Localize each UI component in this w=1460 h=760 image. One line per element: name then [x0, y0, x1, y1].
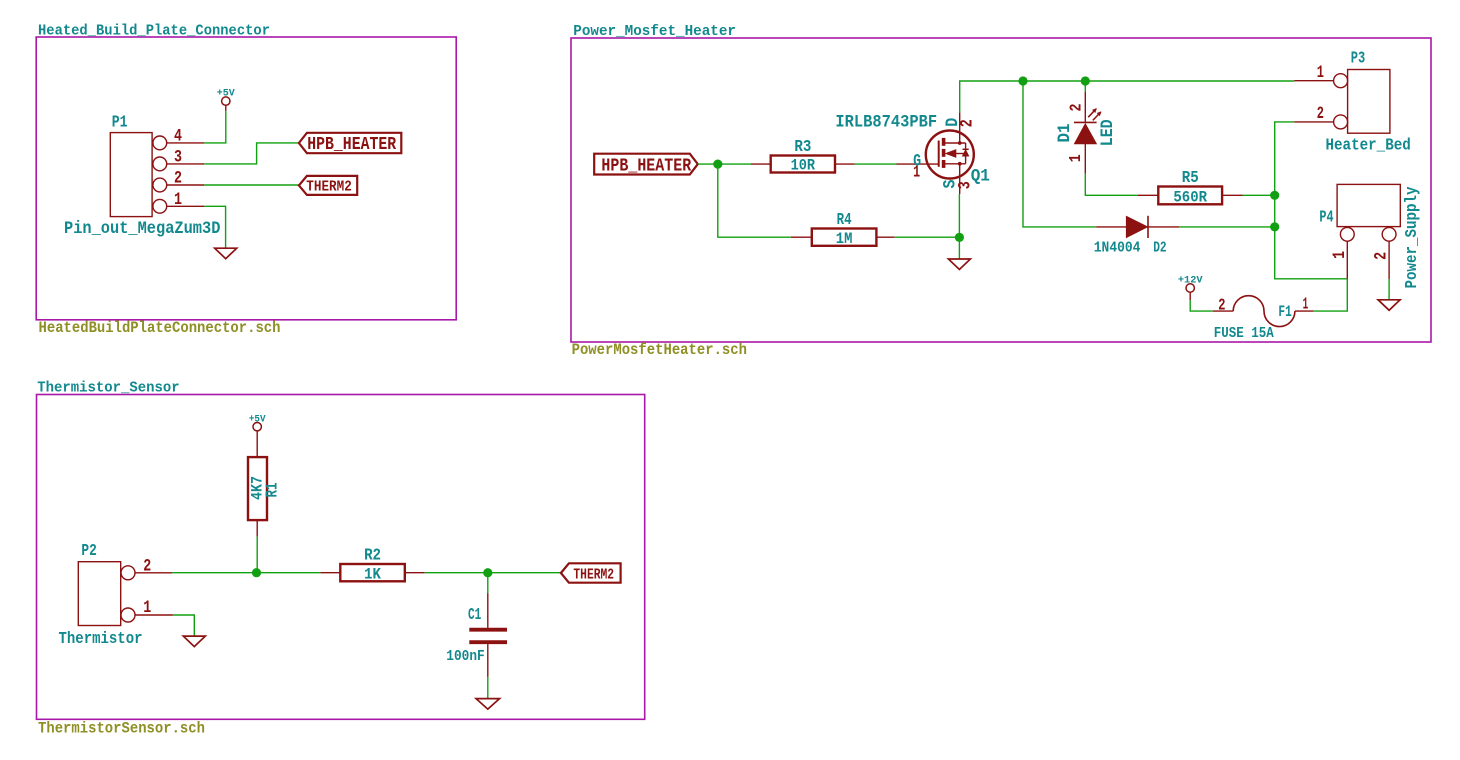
svg-text:Power_Mosfet_Heater: Power_Mosfet_Heater [573, 24, 736, 40]
svg-text:1: 1 [174, 189, 182, 209]
svg-text:Thermistor_Sensor: Thermistor_Sensor [37, 380, 180, 396]
svg-text:IRLB8743PBF: IRLB8743PBF [835, 113, 937, 133]
svg-text:1M: 1M [836, 231, 853, 248]
svg-text:C1: C1 [468, 606, 481, 625]
svg-text:P3: P3 [1351, 50, 1365, 68]
svg-text:HPB_HEATER: HPB_HEATER [307, 134, 396, 155]
svg-text:2: 2 [174, 168, 182, 188]
svg-text:1: 1 [1317, 63, 1324, 83]
svg-text:10R: 10R [791, 158, 816, 175]
svg-text:P2: P2 [81, 543, 96, 561]
svg-text:1N4004: 1N4004 [1094, 240, 1141, 257]
svg-text:1K: 1K [364, 567, 381, 584]
svg-text:4: 4 [174, 126, 182, 146]
svg-text:PowerMosfetHeater.sch: PowerMosfetHeater.sch [572, 343, 747, 360]
svg-text:D2: D2 [1153, 239, 1167, 256]
svg-text:3: 3 [174, 147, 182, 167]
svg-text:1: 1 [1329, 251, 1349, 259]
svg-text:560R: 560R [1173, 190, 1207, 207]
svg-text:+12V: +12V [1178, 275, 1204, 287]
svg-text:Q1: Q1 [971, 167, 990, 187]
svg-text:100nF: 100nF [446, 648, 484, 665]
svg-text:2: 2 [1371, 252, 1391, 260]
svg-text:R5: R5 [1182, 168, 1199, 187]
svg-text:HeatedBuildPlateConnector.sch: HeatedBuildPlateConnector.sch [39, 320, 281, 337]
svg-text:ThermistorSensor.sch: ThermistorSensor.sch [38, 721, 205, 738]
svg-text:F1: F1 [1278, 304, 1291, 321]
svg-text:1: 1 [1065, 154, 1085, 162]
svg-text:THERM2: THERM2 [573, 566, 614, 583]
svg-text:Heater_Bed: Heater_Bed [1326, 136, 1411, 155]
svg-text:1: 1 [913, 164, 920, 183]
svg-text:+5V: +5V [249, 413, 266, 425]
svg-text:HPB_HEATER: HPB_HEATER [601, 156, 691, 177]
svg-text:2: 2 [1066, 104, 1086, 112]
svg-text:Pin_out_MegaZum3D: Pin_out_MegaZum3D [64, 219, 220, 239]
svg-text:R2: R2 [364, 546, 381, 565]
svg-text:FUSE 15A: FUSE 15A [1214, 326, 1275, 342]
svg-text:Thermistor: Thermistor [59, 629, 143, 649]
svg-text:Heated_Build_Plate_Connector: Heated_Build_Plate_Connector [38, 23, 270, 39]
svg-text:THERM2: THERM2 [306, 180, 352, 196]
svg-text:R4: R4 [837, 212, 852, 230]
svg-text:1: 1 [1303, 295, 1309, 313]
svg-text:2: 2 [957, 119, 977, 127]
svg-text:D1: D1 [1055, 124, 1075, 143]
svg-text:R3: R3 [794, 137, 811, 156]
svg-text:2: 2 [1317, 104, 1324, 124]
svg-text:P1: P1 [112, 114, 128, 132]
svg-text:LED: LED [1097, 119, 1118, 146]
svg-text:2: 2 [1218, 297, 1225, 315]
svg-text:P4: P4 [1319, 209, 1334, 227]
svg-text:+5V: +5V [217, 89, 236, 100]
svg-text:Power_Supply: Power_Supply [1402, 187, 1421, 289]
svg-text:R1: R1 [264, 482, 282, 497]
